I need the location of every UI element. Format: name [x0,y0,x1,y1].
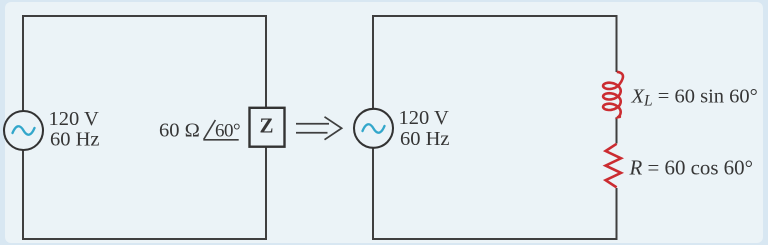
svg-text:60 Hz: 60 Hz [400,128,450,150]
svg-text:120 V: 120 V [399,107,450,129]
inductor XL (red coil) [603,72,623,117]
impedance box Z [250,108,285,147]
angle slash [203,120,238,140]
svg-text:R = 60 cos 60°: R = 60 cos 60° [629,155,753,179]
svg-text:60 Ω: 60 Ω [159,120,200,142]
svg-text:60°: 60° [215,121,240,142]
wire right circuit rectangle (right edge broken for components) [373,16,617,239]
svg-text:Z: Z [259,114,273,138]
svg-text:120 V: 120 V [49,108,100,130]
AC source V1 [4,111,43,150]
AC source V2 [354,109,393,148]
sine symbol V1 [13,126,35,134]
double arrow [296,117,342,140]
resistor R (red zigzag) [606,144,621,188]
sine symbol V2 [363,124,385,132]
wire left circuit rectangle [23,16,266,239]
svg-text:60 Hz: 60 Hz [50,128,100,150]
